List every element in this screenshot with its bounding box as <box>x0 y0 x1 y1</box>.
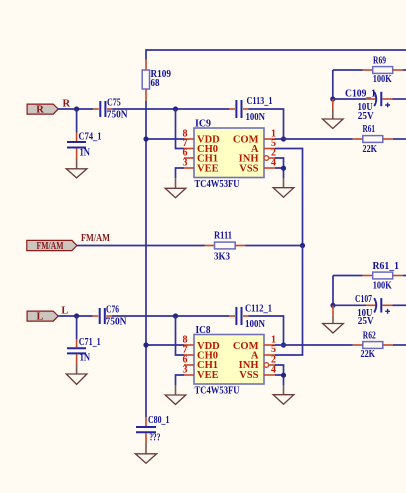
capacitor C80_1 <box>136 415 169 444</box>
svg-text:3: 3 <box>183 157 188 168</box>
IC9 pin 3 VEE <box>183 157 195 168</box>
connector R <box>27 104 58 116</box>
svg-text:IC8: IC8 <box>196 325 211 336</box>
capacitor C107 <box>333 294 406 327</box>
svg-text:22K: 22K <box>361 349 376 360</box>
wire R69 to C109_1 <box>332 70 334 99</box>
svg-text:22K: 22K <box>363 144 378 155</box>
wire A IC9 to vertical <box>275 149 303 246</box>
node COM IC9 junction <box>281 136 286 141</box>
svg-text:FM/AM: FM/AM <box>37 241 64 252</box>
svg-text:100N: 100N <box>245 319 265 330</box>
IC9 pin 7 CH0 <box>183 138 195 149</box>
svg-text:VSS: VSS <box>239 163 258 174</box>
svg-text:FM/AM: FM/AM <box>81 233 110 244</box>
svg-text:R: R <box>63 99 71 110</box>
wire CH0 IC9 branch <box>176 109 185 149</box>
IC9 pin 4 VSS <box>264 157 276 168</box>
ground (C107) <box>323 305 344 333</box>
resistor R69 <box>333 56 406 86</box>
IC8 pin 6 CH1 <box>183 354 195 365</box>
capacitor C113_1 <box>229 96 272 123</box>
ground (IC8 VEE) <box>165 385 186 404</box>
wire INH IC9 to VSS <box>275 158 284 178</box>
node R111 junction <box>300 243 305 248</box>
IC9 pin 2 INH bubble <box>264 147 276 160</box>
svg-text:VEE: VEE <box>197 370 219 381</box>
node CH0 IC8 tap junction <box>173 313 178 318</box>
svg-text:C107: C107 <box>355 294 372 305</box>
node VDD IC9 junction <box>143 136 148 141</box>
IC9 pin 6 CH1 <box>183 147 195 158</box>
wire C113_1 to COM <box>249 109 284 139</box>
svg-text:C80_1: C80_1 <box>148 415 169 426</box>
wire L row <box>112 315 230 317</box>
wire FM/AM row <box>77 245 205 247</box>
wire COM IC9 to R61 <box>275 138 353 140</box>
resistor R61 <box>353 124 406 155</box>
IC8 pin 3 VEE <box>183 364 195 375</box>
wire R61_1 to C107 <box>332 276 334 306</box>
resistor R111 <box>205 231 246 263</box>
wire VDD rail vertical x=146 <box>145 101 147 417</box>
node CH0 tap junction <box>173 106 178 111</box>
svg-text:100K: 100K <box>373 280 393 291</box>
capacitor C74_1 <box>67 109 102 159</box>
wire R111 to A rail <box>245 245 302 247</box>
svg-text:C109_1: C109_1 <box>345 89 376 100</box>
IC8 pin 4 VSS <box>264 364 276 375</box>
ground (IC9 VEE) <box>165 178 186 197</box>
capacitor C112_1 <box>229 304 272 331</box>
IC8 pin 5 A <box>264 344 276 355</box>
IC9 pin 5 A <box>264 138 276 149</box>
wire VDD IC8 branch <box>146 344 184 346</box>
svg-text:R69: R69 <box>373 56 386 67</box>
svg-text:4: 4 <box>271 364 276 375</box>
node L junction <box>74 313 79 318</box>
svg-text:C113_1: C113_1 <box>247 96 273 107</box>
svg-text:25V: 25V <box>358 316 374 327</box>
IC8 pin 8 VDD <box>183 334 195 345</box>
svg-text:R61: R61 <box>363 124 376 135</box>
svg-text:750N: 750N <box>106 316 127 327</box>
node C109_1 junction <box>330 96 335 101</box>
IC9 body <box>194 119 264 191</box>
svg-text:C71_1: C71_1 <box>79 337 101 348</box>
svg-text:VEE: VEE <box>197 163 219 174</box>
svg-text:68: 68 <box>151 78 160 89</box>
wire R row <box>112 108 229 110</box>
resistor R109 <box>142 59 171 101</box>
svg-text:VSS: VSS <box>239 370 258 381</box>
connector L <box>27 311 58 323</box>
svg-text:4: 4 <box>271 157 276 168</box>
svg-text:TC4W53FU: TC4W53FU <box>195 179 240 190</box>
svg-text:750N: 750N <box>107 109 128 120</box>
resistor R61_1 <box>333 261 406 291</box>
capacitor C71_1 <box>67 316 101 364</box>
capacitor C109_1 <box>333 89 406 122</box>
svg-text:L: L <box>61 306 68 317</box>
svg-text:100K: 100K <box>373 74 393 85</box>
node VSS IC9 junction <box>281 166 286 171</box>
wire R input <box>58 108 93 110</box>
resistor R62 <box>353 331 406 360</box>
svg-text:C76: C76 <box>106 304 119 315</box>
svg-text:C112_1: C112_1 <box>245 304 272 315</box>
ground (IC9 VSS/INH) <box>273 178 294 197</box>
svg-text:3K3: 3K3 <box>214 251 230 262</box>
wire CH0 IC8 branch <box>176 316 185 355</box>
IC8 pin 1 COM <box>264 334 276 345</box>
node C107 junction <box>330 303 335 308</box>
svg-text:R62: R62 <box>363 331 376 342</box>
svg-text:25V: 25V <box>358 111 374 122</box>
capacitor C75 <box>93 98 128 121</box>
ground (C109_1) <box>323 99 344 129</box>
wire A rail lower <box>275 246 303 356</box>
IC8 pin 2 INH bubble <box>264 354 276 367</box>
svg-text:???: ??? <box>149 433 160 444</box>
svg-text:100N: 100N <box>246 112 266 123</box>
svg-text:IC9: IC9 <box>195 119 211 130</box>
wire C112_1 to COM IC8 <box>249 316 284 345</box>
node VDD IC8 junction <box>143 342 148 347</box>
svg-text:C74_1: C74_1 <box>79 131 102 142</box>
node VSS IC8 junction <box>281 373 286 378</box>
connector FM/AM <box>27 240 77 252</box>
node COM IC8 junction <box>281 342 286 347</box>
wire VEE IC8 to ground <box>176 375 185 385</box>
wire VDD IC9 branch <box>146 138 184 140</box>
wire COM IC8 to R62 <box>275 344 353 346</box>
wire VEE IC9 to ground <box>176 168 185 178</box>
wire L input <box>58 315 92 317</box>
IC8 body <box>194 325 264 397</box>
ground (C71_1) <box>66 364 87 384</box>
ground (IC8 VSS/INH) <box>273 385 294 404</box>
svg-text:C75: C75 <box>107 98 121 109</box>
ground (C74_1) <box>66 159 87 178</box>
svg-text:R: R <box>36 105 44 116</box>
svg-text:L: L <box>36 312 43 323</box>
node R junction <box>74 106 79 111</box>
IC9 pin 8 VDD <box>183 128 195 139</box>
capacitor C76 <box>93 304 127 327</box>
svg-text:1N: 1N <box>80 353 91 364</box>
svg-text:1N: 1N <box>80 148 91 159</box>
IC9 pin 1 COM <box>264 128 276 139</box>
wire top rail <box>146 49 406 59</box>
wire INH IC8 to VSS <box>275 365 284 385</box>
ground (C80_1) <box>135 443 156 463</box>
svg-text:R61_1: R61_1 <box>373 261 400 272</box>
svg-text:TC4W53FU: TC4W53FU <box>195 386 240 397</box>
svg-text:3: 3 <box>183 364 188 375</box>
svg-text:R111: R111 <box>214 231 232 242</box>
IC8 pin 7 CH0 <box>183 344 195 355</box>
